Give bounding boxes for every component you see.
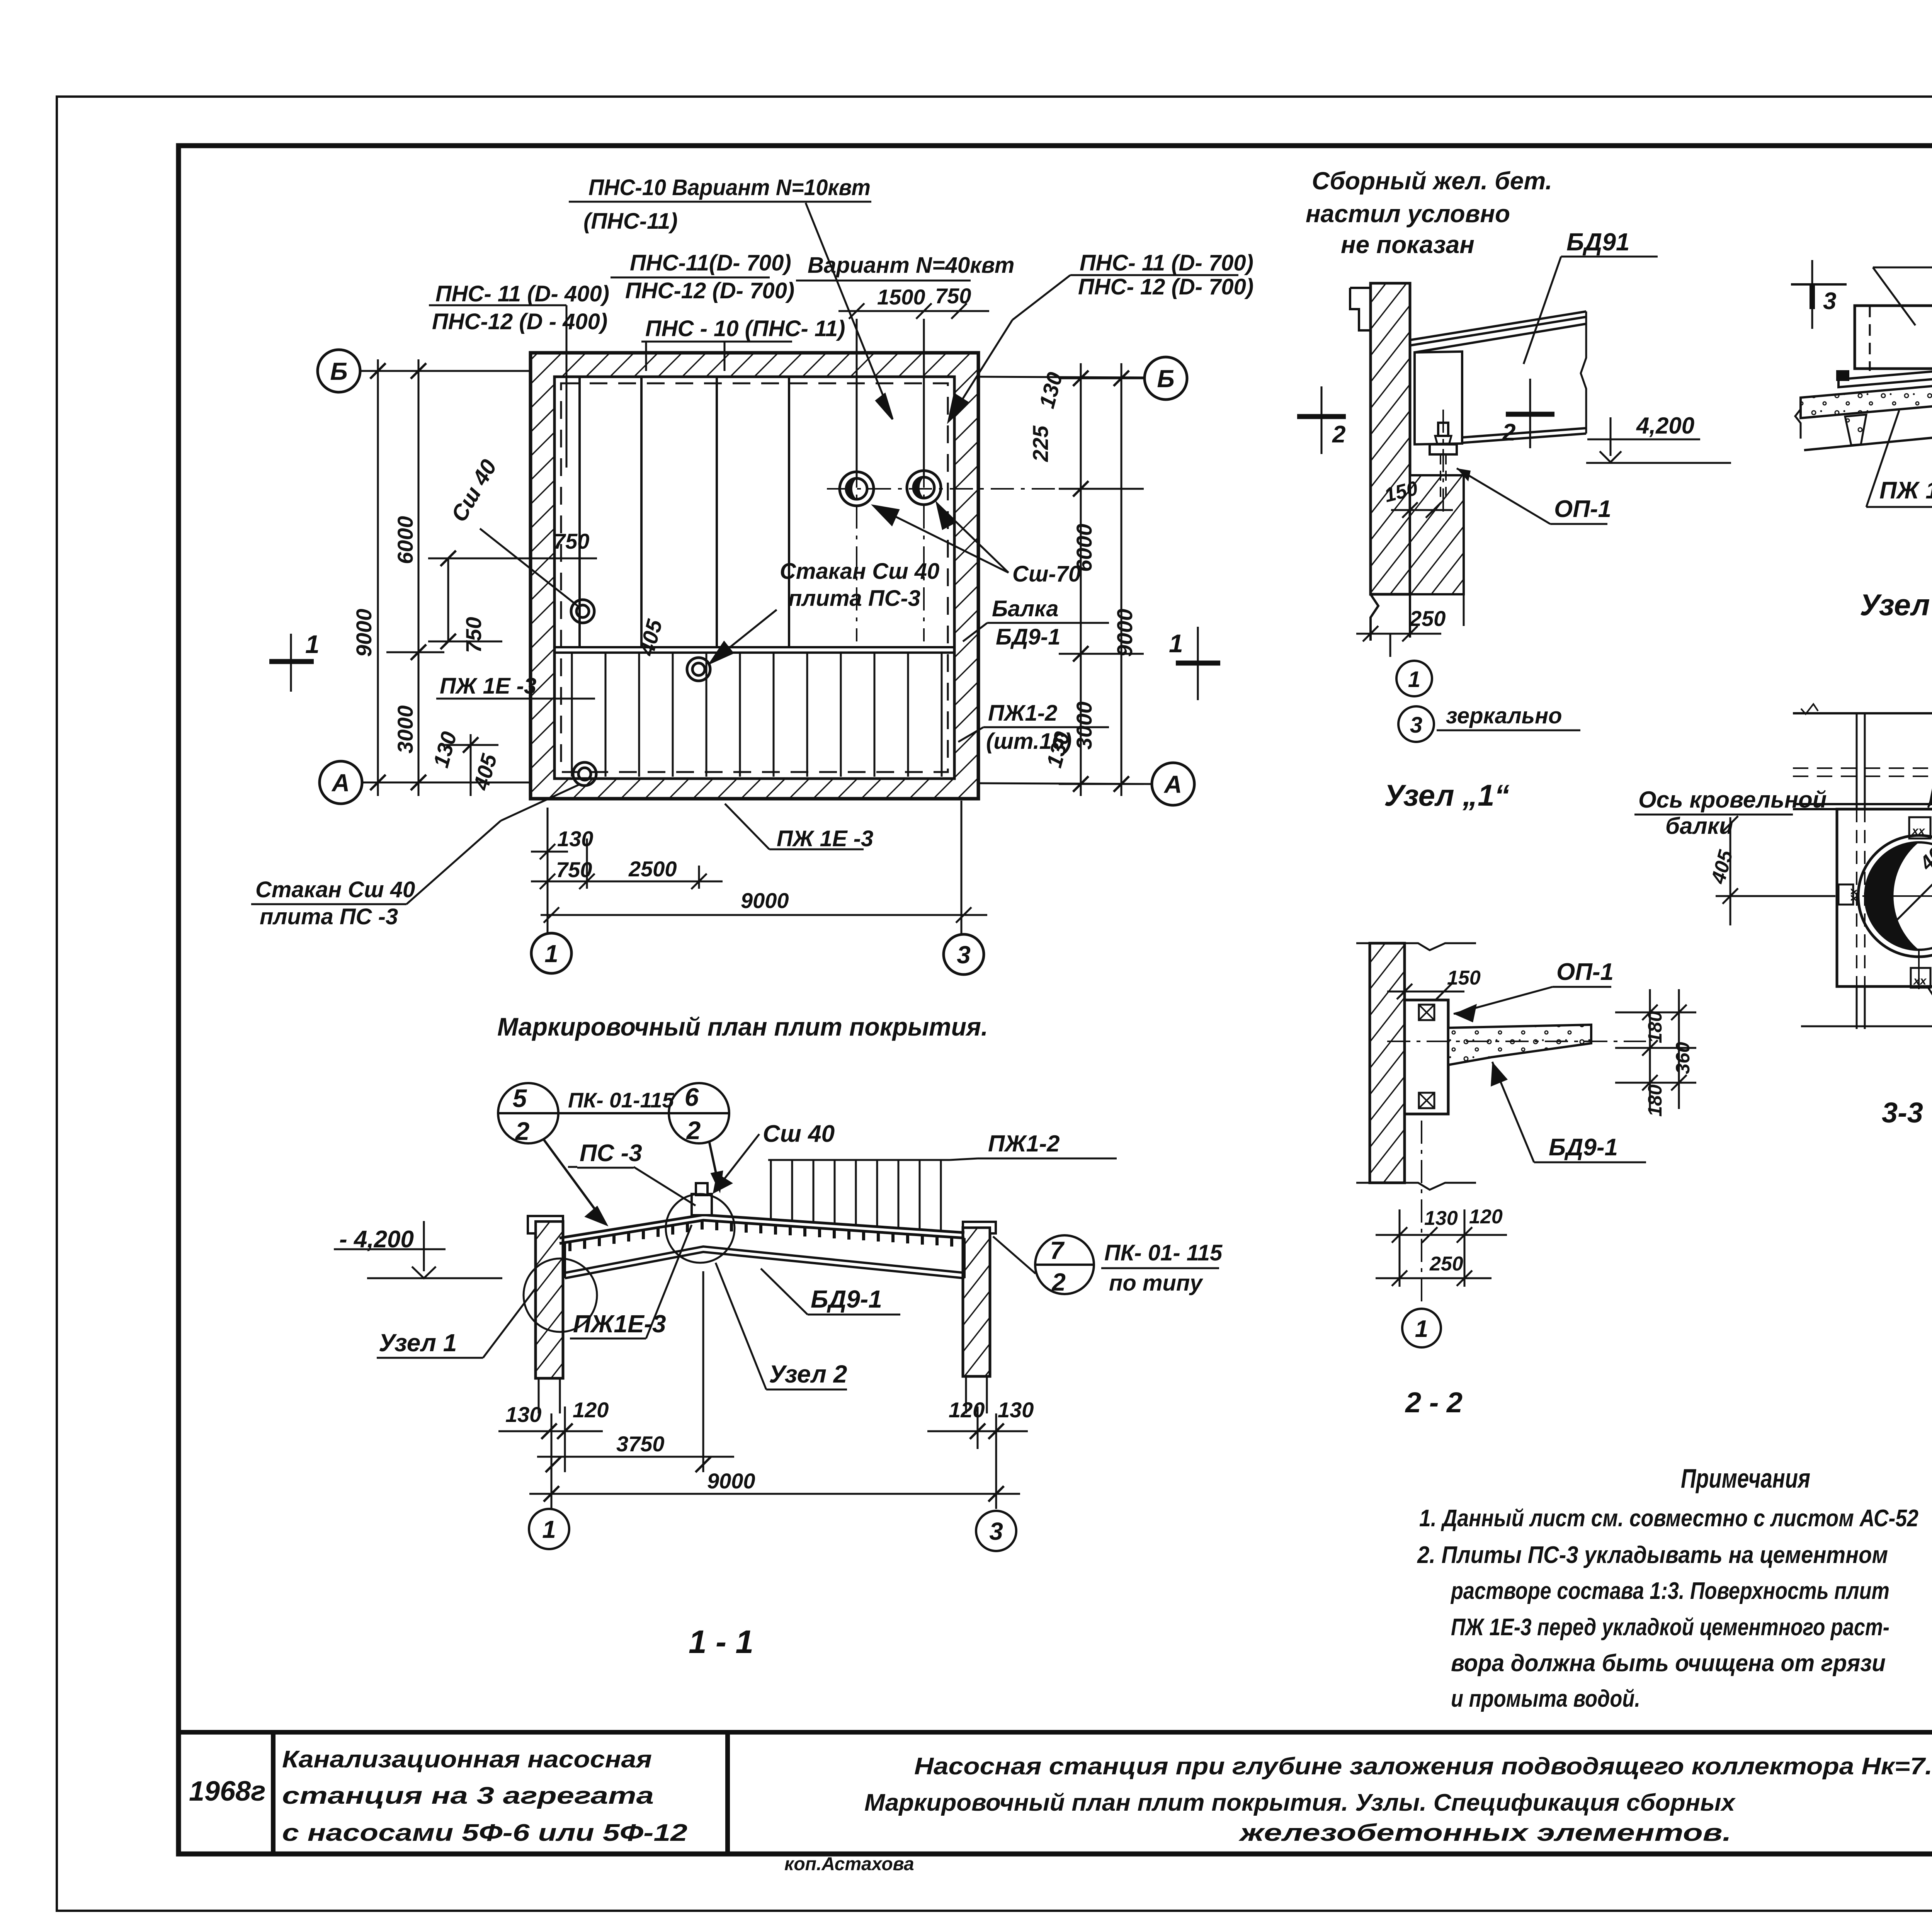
svg-text:БД91: БД91 <box>1566 228 1630 256</box>
svg-text:3: 3 <box>957 941 971 969</box>
svg-text:225: 225 <box>1028 425 1053 462</box>
svg-text:зеркально: зеркально <box>1446 703 1562 728</box>
svg-text:ПЖ 1Е -3: ПЖ 1Е -3 <box>440 673 536 699</box>
svg-text:3000: 3000 <box>1072 701 1096 750</box>
svg-text:750: 750 <box>935 284 971 308</box>
svg-text:А: А <box>1163 770 1182 798</box>
svg-text:- 4,200: - 4,200 <box>339 1226 414 1253</box>
svg-text:ПНС- 12 (D- 700): ПНС- 12 (D- 700) <box>1078 274 1253 299</box>
svg-text:150: 150 <box>1447 967 1481 989</box>
svg-text:ПС -3: ПС -3 <box>580 1140 642 1167</box>
svg-text:коп.Астахова: коп.Астахова <box>784 1854 914 1874</box>
svg-text:Сш 40: Сш 40 <box>763 1121 835 1147</box>
svg-text:Узел „1“: Узел „1“ <box>1384 778 1510 812</box>
svg-text:ПНС - 10 (ПНС- 11): ПНС - 10 (ПНС- 11) <box>645 316 845 341</box>
svg-text:БД9-1: БД9-1 <box>996 624 1061 650</box>
svg-text:120: 120 <box>949 1398 985 1422</box>
svg-text:6: 6 <box>685 1083 699 1111</box>
svg-text:1968г: 1968г <box>189 1776 266 1807</box>
svg-text:9000: 9000 <box>741 888 789 913</box>
svg-text:ОП-1: ОП-1 <box>1556 959 1614 985</box>
svg-text:3000: 3000 <box>393 705 417 753</box>
svg-text:ПНС-10 Вариант N=10квт: ПНС-10 Вариант N=10квт <box>588 175 871 200</box>
svg-text:ПЖ1-2: ПЖ1-2 <box>988 701 1057 726</box>
svg-text:Канализационная насосная: Канализационная насосная <box>282 1746 652 1773</box>
svg-text:130: 130 <box>1424 1207 1458 1230</box>
svg-text:ПНС-11(D- 700): ПНС-11(D- 700) <box>630 250 791 276</box>
svg-text:Ось кровельной: Ось кровельной <box>1638 787 1827 813</box>
svg-text:плита ПС-3: плита ПС-3 <box>788 586 920 611</box>
svg-text:1: 1 <box>305 630 320 658</box>
svg-text:не показан: не показан <box>1341 231 1475 259</box>
svg-text:Узел 2: Узел 2 <box>769 1360 847 1388</box>
svg-text:Вариант N=40квт: Вариант N=40квт <box>808 253 1014 278</box>
svg-text:ПНС-12 (D- 700): ПНС-12 (D- 700) <box>625 278 794 303</box>
svg-text:Маркировочный план пли: Маркировочный план плит покрытия. <box>497 1012 988 1041</box>
svg-text:станция на 3 агрегата: станция на 3 агрегата <box>282 1782 654 1809</box>
svg-text:250: 250 <box>1409 606 1446 631</box>
svg-text:750: 750 <box>556 857 592 882</box>
svg-text:1500: 1500 <box>877 285 925 309</box>
svg-text:ПК- 01-115: ПК- 01-115 <box>568 1088 675 1112</box>
svg-text:130: 130 <box>505 1402 541 1427</box>
svg-text:1: 1 <box>542 1515 556 1543</box>
svg-text:БД9-1: БД9-1 <box>1549 1134 1618 1161</box>
svg-text:5: 5 <box>513 1084 527 1112</box>
svg-text:(ПНС-11): (ПНС-11) <box>583 209 678 234</box>
svg-text:180: 180 <box>1644 1011 1666 1043</box>
svg-text:1: 1 <box>1169 629 1183 658</box>
svg-text:железобетонных элементов.: железобетонных элементов. <box>1238 1820 1731 1846</box>
svg-text:250: 250 <box>1429 1253 1463 1275</box>
svg-text:2 - 2: 2 - 2 <box>1405 1386 1463 1418</box>
svg-text:ПЖ 1Е-3 перед укладкой цемен: ПЖ 1Е-3 перед укладкой цементного раст- <box>1451 1614 1889 1641</box>
svg-text:9000: 9000 <box>352 609 376 657</box>
svg-text:растворе состава 1:3. Повер: растворе состава 1:3. Поверхность плит <box>1450 1578 1889 1604</box>
svg-text:2: 2 <box>1051 1268 1066 1296</box>
svg-text:ПЖ 1Е -3: ПЖ 1Е -3 <box>1879 477 1932 504</box>
svg-text:1: 1 <box>1415 1316 1428 1342</box>
svg-text:ОП-1: ОП-1 <box>1554 496 1611 522</box>
svg-text:плита ПС -3: плита ПС -3 <box>260 904 398 929</box>
svg-text:2: 2 <box>686 1116 701 1145</box>
svg-text:2: 2 <box>1332 421 1345 448</box>
svg-text:ПЖ1-2: ПЖ1-2 <box>988 1131 1060 1156</box>
svg-text:9000: 9000 <box>707 1469 755 1493</box>
svg-text:750: 750 <box>461 617 486 653</box>
svg-text:xx: xx <box>1911 825 1925 837</box>
svg-text:3750: 3750 <box>616 1432 665 1456</box>
svg-text:3: 3 <box>1410 713 1422 738</box>
svg-text:А: А <box>331 769 350 797</box>
svg-text:2. Плиты ПС-3 укладывать на: 2. Плиты ПС-3 укладывать на цементном <box>1417 1542 1888 1568</box>
svg-text:ПНС-12 (D - 400): ПНС-12 (D - 400) <box>432 309 607 334</box>
svg-text:2: 2 <box>1502 419 1515 446</box>
svg-text:ПК- 01- 115: ПК- 01- 115 <box>1104 1240 1223 1265</box>
svg-text:9000: 9000 <box>1112 609 1137 657</box>
svg-text:с насосами 5Ф-6 или 5Ф-12: с насосами 5Ф-6 или 5Ф-12 <box>282 1820 687 1846</box>
svg-text:БД9-1: БД9-1 <box>811 1285 882 1313</box>
svg-text:3: 3 <box>1823 288 1836 315</box>
svg-text:ПНС- 11 (D- 700): ПНС- 11 (D- 700) <box>1080 250 1253 276</box>
svg-text:Балка: Балка <box>992 596 1058 621</box>
svg-text:Узел 1: Узел 1 <box>379 1329 457 1357</box>
svg-text:ПНС- 11 (D- 400): ПНС- 11 (D- 400) <box>435 281 609 306</box>
svg-text:130: 130 <box>557 827 593 851</box>
svg-text:вора должна быть очищена о: вора должна быть очищена от грязи <box>1451 1650 1886 1677</box>
svg-text:130: 130 <box>998 1398 1034 1422</box>
svg-text:Стакан Сш 40: Стакан Сш 40 <box>255 877 415 902</box>
svg-text:1 - 1: 1 - 1 <box>689 1624 753 1660</box>
svg-text:1: 1 <box>544 940 558 968</box>
svg-text:xx: xx <box>1913 975 1927 987</box>
svg-text:и промыта водой.: и промыта водой. <box>1451 1685 1640 1712</box>
svg-text:360: 360 <box>1672 1042 1694 1074</box>
svg-text:120: 120 <box>573 1398 609 1422</box>
svg-text:Сборный жел. бет.: Сборный жел. бет. <box>1312 167 1552 195</box>
svg-text:Насосная станция при глубин: Насосная станция при глубине заложения п… <box>914 1753 1932 1780</box>
svg-text:Сш-70: Сш-70 <box>1012 561 1081 587</box>
svg-text:xx: xx <box>1848 888 1861 902</box>
svg-text:ПЖ 1Е -3: ПЖ 1Е -3 <box>777 826 873 851</box>
svg-text:балки: балки <box>1665 813 1733 839</box>
svg-text:1: 1 <box>1408 667 1420 692</box>
svg-text:Узел „2“: Узел „2“ <box>1860 588 1932 622</box>
svg-text:6000: 6000 <box>393 516 417 564</box>
svg-text:180: 180 <box>1644 1084 1666 1117</box>
svg-text:750: 750 <box>553 529 589 553</box>
svg-text:Б: Б <box>330 357 347 385</box>
svg-text:3-3: 3-3 <box>1882 1097 1923 1129</box>
svg-text:2500: 2500 <box>628 857 677 881</box>
svg-text:Маркировочный план плит пок: Маркировочный план плит покрытия. Узлы. … <box>864 1789 1736 1816</box>
svg-text:Б: Б <box>1157 365 1174 393</box>
svg-text:Примечания: Примечания <box>1681 1463 1810 1493</box>
svg-text:3: 3 <box>989 1517 1003 1545</box>
svg-text:120: 120 <box>1469 1206 1503 1228</box>
svg-text:7: 7 <box>1050 1236 1065 1264</box>
svg-text:1. Данный лист см. совместно: 1. Данный лист см. совместно с листом АС… <box>1419 1505 1918 1532</box>
svg-text:по типу: по типу <box>1109 1270 1203 1296</box>
svg-text:4,200: 4,200 <box>1636 413 1694 439</box>
svg-text:Стакан Сш 40: Стакан Сш 40 <box>780 559 939 584</box>
svg-text:настил условно: настил условно <box>1306 200 1510 228</box>
svg-text:2: 2 <box>515 1117 530 1145</box>
svg-text:(шт.16): (шт.16) <box>986 729 1072 754</box>
